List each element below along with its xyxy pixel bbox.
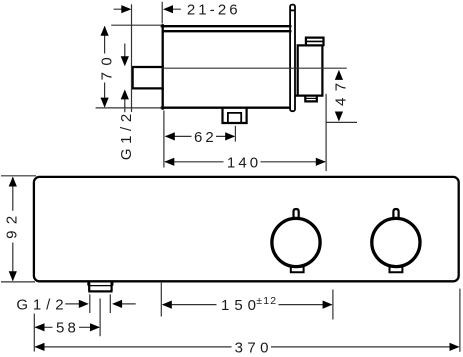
svg-text:G1/2: G1/2: [16, 297, 68, 314]
92 dim line: [12, 178, 14, 281]
62 right extension (outlet centerline): [234, 126, 236, 142]
58 left arrow: [35, 323, 45, 331]
left knob bottom tab: [291, 267, 304, 273]
svg-text:58: 58: [56, 320, 79, 337]
centerline through knob axis: [162, 67, 347, 69]
370 right arrow: [450, 343, 460, 351]
body bottom edge: [162, 107, 290, 109]
thin lines bottom drawing: [1, 176, 460, 352]
outlet left extension: [89, 294, 91, 313]
70 dim line: [104, 27, 106, 107]
150 dim line: [163, 304, 332, 306]
62 left arrow: [165, 132, 175, 140]
140 right extension: [325, 94, 327, 171]
front body panel: [34, 177, 459, 281]
G1/2 leader lines: [124, 44, 126, 113]
21-26 right arrow (points left): [163, 5, 173, 13]
21-26 dim tails: [114, 8, 181, 10]
svg-text:47: 47: [333, 76, 350, 106]
62 right arrow: [225, 132, 235, 140]
150 left arrow: [162, 301, 172, 309]
body top outer line: [162, 25, 290, 27]
svg-text:140: 140: [227, 154, 261, 171]
370 right extension: [459, 289, 461, 352]
21-26 right extension: [161, 2, 163, 24]
svg-text:370: 370: [235, 339, 273, 356]
G1/2 up arrow (points at box bottom): [121, 89, 129, 99]
thin lines: centerline, extensions, dimension lines: [96, 2, 357, 171]
right knob bottom tab: [390, 267, 403, 273]
47 up arrow: [335, 70, 343, 80]
92 down arrow: [9, 271, 17, 281]
140 right arrow: [316, 158, 326, 166]
left knob circle: [272, 218, 320, 266]
47 down arrow: [335, 112, 343, 122]
92 up arrow: [9, 177, 17, 187]
62/140 left extension: [163, 111, 165, 168]
supply union box: [133, 67, 163, 88]
wall reference line: [131, 4, 133, 112]
svg-text:±12: ±12: [256, 295, 277, 307]
right knob circle: [372, 218, 420, 266]
G1/2 right-pointing arrow: [79, 300, 89, 308]
svg-text:150: 150: [221, 297, 261, 314]
glass plate: [290, 5, 295, 112]
58 right arrow: [90, 323, 100, 331]
140 dim line: [165, 161, 325, 163]
knob bottom tab: [305, 96, 317, 102]
body left edge: [162, 25, 164, 108]
58 dim line: [35, 326, 99, 328]
svg-text:21-26: 21-26: [187, 2, 241, 19]
92 top extension: [1, 175, 36, 177]
bottom outlet nut (side view): [223, 109, 247, 123]
arrowheads bottom drawing: [9, 177, 460, 352]
arrowheads top drawing: [101, 5, 344, 166]
G1/2 arrow tails: [65, 303, 135, 305]
370 left arrow: [35, 343, 45, 351]
svg-text:62: 62: [194, 129, 217, 146]
svg-text:70: 70: [98, 51, 115, 81]
62 dim line: [166, 135, 235, 137]
front outlet: [88, 282, 113, 292]
outlet right extension: [109, 294, 111, 313]
body top inner line: [164, 30, 290, 32]
svg-text:G1/2: G1/2: [118, 109, 135, 160]
70 bottom extension: [96, 107, 162, 109]
47 bottom extension: [326, 121, 357, 123]
150 right extension: [332, 290, 334, 320]
G1/2 left-pointing arrow: [112, 300, 122, 308]
140 left arrow: [164, 158, 174, 166]
21-26 left arrow (points right): [121, 5, 131, 13]
knob side view main: [296, 38, 324, 102]
70 top extension: [111, 24, 161, 26]
G1/2 down arrow (points at box top): [121, 56, 129, 66]
70 up arrow: [101, 26, 109, 36]
outlet centerline extension: [99, 298, 101, 336]
knob top ridge: [306, 38, 324, 46]
70 down arrow: [101, 98, 109, 108]
92 bottom extension: [1, 281, 35, 283]
370 dim line: [35, 346, 458, 348]
svg-text:92: 92: [3, 209, 20, 239]
right knob nub: [393, 209, 398, 219]
150 right arrow: [323, 301, 333, 309]
150 left extension: [160, 283, 162, 317]
left knob nub: [294, 209, 299, 219]
58/370 left extension: [33, 314, 35, 352]
